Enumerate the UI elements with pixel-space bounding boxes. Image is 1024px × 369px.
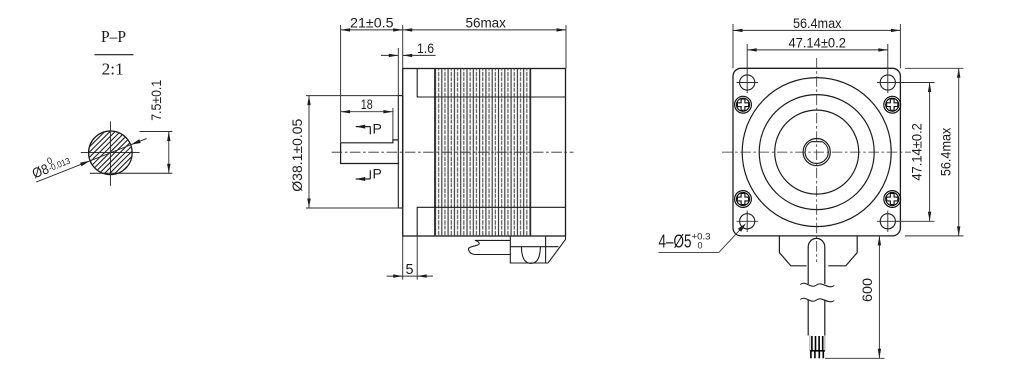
svg-text:47.14±0.2: 47.14±0.2 [910, 123, 925, 181]
section title P-P [94, 27, 133, 79]
dimension 7.5±0.1 [168, 132, 170, 174]
motor body outline [403, 69, 566, 237]
shaft circle with flat [805, 142, 828, 164]
dimension 1.6 [381, 48, 436, 96]
dimension 56.4max top [733, 24, 900, 68]
inner ring circle [775, 110, 859, 194]
svg-text:4–Ø5: 4–Ø5 [659, 232, 692, 252]
cable bracket left wing [779, 236, 806, 266]
cable [808, 238, 825, 335]
screw top-right [884, 96, 901, 113]
body circle [742, 78, 891, 227]
svg-text:21±0.5: 21±0.5 [350, 15, 394, 30]
center line horizontal [722, 151, 911, 153]
dimension 600 [825, 236, 885, 358]
wire strands [810, 336, 825, 359]
svg-text:56.4max: 56.4max [793, 16, 842, 31]
front end cap step upper [417, 69, 565, 98]
lamination stack right edge [530, 69, 532, 237]
center line vertical [816, 58, 818, 262]
lead wire side [468, 240, 510, 254]
dimension 47.14±0.2 right [895, 83, 935, 222]
dimension Ø38.1±0.05 [306, 96, 398, 208]
mounting hole top-left [737, 75, 759, 90]
leader line Ø8 [36, 139, 147, 183]
cable break squiggles [800, 283, 834, 302]
front end cap step lower [417, 207, 565, 236]
dimension 56max [403, 25, 566, 69]
centerline vertical [109, 121, 111, 185]
svg-text:0: 0 [698, 241, 703, 252]
dimension 21±0.5 [341, 25, 403, 143]
centerline horizontal [81, 152, 140, 154]
dimension 56.4max right [905, 68, 964, 236]
svg-text:18: 18 [361, 97, 373, 112]
shaft boss circle [803, 139, 830, 166]
shaft section circle [89, 131, 133, 175]
lamination stack texture [435, 69, 532, 237]
shaft centerline [332, 151, 574, 153]
svg-text:47.14±0.2: 47.14±0.2 [788, 35, 846, 50]
svg-text:7.5±0.1: 7.5±0.1 [149, 80, 164, 121]
dimension 5 [387, 236, 433, 280]
svg-text:P–P: P–P [101, 27, 126, 46]
svg-text:2:1: 2:1 [102, 60, 124, 79]
svg-text:Ø38.1±0.05: Ø38.1±0.05 [290, 119, 305, 192]
shaft [341, 140, 399, 164]
section mark P upper [356, 120, 382, 136]
section mark P lower [356, 165, 382, 181]
lamination stack left edge [434, 69, 436, 237]
flange square [733, 68, 900, 236]
svg-text:56.4max: 56.4max [939, 127, 954, 176]
svg-text:600: 600 [860, 278, 875, 302]
mounting hole bottom-left [737, 211, 759, 232]
mounting hole bottom-right [877, 211, 899, 232]
shaft flat line / bottom extension line [90, 172, 172, 174]
pilot boss [398, 96, 402, 208]
screw bottom-right [884, 191, 901, 208]
svg-text:1.6: 1.6 [417, 41, 434, 56]
cable bracket right wing [828, 236, 857, 266]
dimension 47.14±0.2 top [747, 44, 888, 93]
cable clamp block rear [510, 236, 565, 263]
label 4-Ø5 +0.3/0 [659, 223, 747, 252]
svg-text:56max: 56max [465, 15, 506, 30]
hatching [63, 123, 175, 173]
top extension line [140, 131, 173, 133]
svg-text:5: 5 [406, 262, 414, 278]
dimension 18 [341, 108, 393, 143]
mounting hole top-right [877, 75, 899, 90]
screw bottom-left [735, 191, 752, 208]
boss circle [759, 95, 874, 210]
svg-text:P: P [373, 120, 382, 136]
svg-text:P: P [373, 165, 382, 181]
screw top-left [735, 96, 752, 113]
label Ø8 0/-0.013 [29, 149, 73, 181]
